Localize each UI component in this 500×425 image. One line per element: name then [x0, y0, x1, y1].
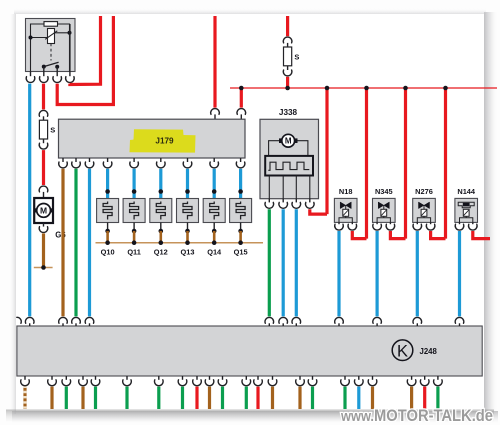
relay coil diagonal	[45, 31, 57, 40]
wire red fuse to G6	[42, 150, 45, 185]
wire blue N144 to J248	[458, 231, 461, 316]
wire red bus drop to J338	[325, 88, 328, 214]
J248 top arc 3	[72, 317, 81, 323]
J338 pin lead 3	[295, 176, 297, 199]
relay pin stub 4	[69, 24, 71, 76]
N276 solenoid coil	[421, 209, 427, 216]
svg-text:J248: J248	[420, 347, 438, 356]
svg-text:Q10: Q10	[101, 248, 115, 257]
Q14 ground node	[212, 240, 217, 245]
fuse S right body	[284, 47, 292, 66]
wire brown Q14 to ground	[213, 231, 216, 243]
valve N345 box	[373, 198, 396, 222]
valve N144 box	[455, 198, 478, 222]
Q13 ground node	[185, 240, 190, 245]
Q10 top node	[105, 189, 110, 194]
Q12 bottom stub	[160, 223, 162, 232]
J248 bottom stub 16	[312, 376, 314, 380]
Q10 bottom stub	[107, 223, 109, 232]
J248 top arc 10	[413, 317, 422, 323]
Q15 bottom node	[238, 229, 243, 234]
relay terminal 3 arc	[53, 77, 62, 83]
J338 pin lead 4	[309, 176, 311, 199]
svg-text:M: M	[40, 206, 47, 216]
G6 stub bottom	[43, 223, 45, 227]
J248 bottom stub 5	[95, 376, 97, 380]
N276 bottom arc right	[426, 224, 435, 230]
J338 pulse box	[265, 156, 313, 176]
fuse S left body	[39, 120, 47, 139]
J179 bottom stub 5	[133, 158, 135, 162]
glow plug ground rail	[96, 242, 264, 244]
J248 bottom arc 20	[407, 380, 416, 386]
bus node fuse S	[285, 86, 290, 91]
Q12 ground node	[159, 240, 164, 245]
wire blue N18 to J248	[337, 231, 340, 316]
Q13 top node	[185, 189, 190, 194]
J248 bottom stub 9	[196, 376, 198, 380]
J338 bottom arc 4	[306, 202, 315, 208]
J179 arc pin a	[211, 109, 220, 115]
wire green J179 to J248	[74, 169, 77, 317]
wire J248 out 14	[271, 387, 274, 409]
J248 top stub 6	[282, 323, 284, 326]
Q15 bottom stub	[240, 223, 242, 232]
relay internal fuse	[44, 22, 58, 27]
J248 bottom arc 3	[62, 380, 71, 386]
wire blue J179 to J248	[88, 169, 91, 317]
J248 bottom stub 4	[82, 376, 84, 380]
wire red relay-4 L-shape up	[70, 16, 101, 85]
relay internal top wire	[31, 24, 70, 72]
svg-text:Q15: Q15	[234, 248, 248, 257]
J248 top stub 10	[416, 323, 418, 326]
J248 bottom stub 21	[424, 376, 426, 380]
J248 bottom arc 4	[79, 380, 88, 386]
Q15 heater element	[236, 202, 245, 220]
J248 bottom arc 15	[296, 380, 305, 386]
svg-text:Q12: Q12	[154, 248, 168, 257]
wire red N18 supply	[352, 231, 366, 239]
J248 bottom stub 15	[299, 376, 301, 380]
wire brown Q10 to ground	[106, 231, 109, 243]
wire red N276 supply	[431, 231, 446, 239]
valve N276 box	[413, 198, 436, 222]
wire brown J179 to J248	[61, 169, 64, 317]
J338 motor tab right	[294, 138, 297, 143]
N18 valve bowtie	[340, 202, 351, 209]
wire red relay-3 L-shape up	[57, 16, 113, 105]
motor G6 side tab left	[35, 208, 39, 212]
N345 bottom arc left	[373, 224, 382, 230]
wire J248 out 20	[410, 387, 413, 409]
relay terminal 1 arc	[26, 77, 35, 83]
svg-text:N276: N276	[415, 187, 433, 196]
J338 bottom arc 1	[265, 202, 274, 208]
glow plug Q13 box	[177, 199, 199, 223]
N144 coil diagonal	[464, 210, 469, 216]
page shadow top	[14, 8, 486, 14]
N18 solenoid coil	[343, 209, 349, 216]
svg-text:J179: J179	[155, 137, 174, 146]
J248 top arc 8	[335, 317, 344, 323]
glow plug Q12 box	[150, 199, 172, 223]
J179 bottom arc 4	[103, 162, 112, 168]
svg-text:Q11: Q11	[127, 248, 141, 257]
J248 top arc 5	[265, 317, 274, 323]
G6 arc bottom	[39, 227, 48, 233]
J248 bottom stub 8	[182, 376, 184, 380]
N345 solenoid coil	[381, 209, 387, 216]
J248 bottom arc 10	[205, 380, 214, 386]
J248 top stub 11	[459, 323, 461, 326]
J179 arc pin b	[237, 109, 246, 115]
J248 bottom arc 13	[254, 380, 263, 386]
Q13 bottom node	[185, 229, 190, 234]
svg-text:Q14: Q14	[207, 248, 222, 257]
fuse S right arc bottom	[283, 70, 292, 76]
J248 top arc 11	[455, 317, 464, 323]
wire J248 out 17	[343, 387, 346, 409]
J248 bottom stub 11	[222, 376, 224, 380]
J338 bottom stub 2	[282, 199, 284, 203]
Q15 ground node	[238, 240, 243, 245]
wire brown Q11 to ground	[133, 231, 136, 243]
fuse S left stub bottom	[43, 139, 45, 143]
J248 bottom stub 2	[51, 376, 53, 380]
N345 bottom stub right	[389, 222, 391, 224]
relay box	[26, 19, 76, 72]
wire red N144 supply	[473, 231, 490, 239]
J248 bottom arc 6	[123, 380, 132, 386]
N144 internal leads	[460, 216, 473, 222]
wire red top feed to J179 pin a	[213, 16, 216, 108]
wire red fuse S right top	[286, 16, 289, 36]
G6 ground node	[41, 265, 46, 270]
wire red bus drop to N276	[444, 88, 447, 239]
Q11 bottom node	[132, 229, 137, 234]
J338 bottom stub 1	[268, 199, 270, 203]
svg-text:MOTOR-TALK.de: MOTOR-TALK.de	[374, 407, 493, 425]
J248 bottom stub 19	[372, 376, 374, 380]
J248 bottom stub 1	[24, 376, 26, 380]
Q10 bottom node	[105, 229, 110, 234]
N144 solenoid coil	[463, 209, 469, 216]
N345 bottom stub left	[376, 222, 378, 224]
J248 top arc 1	[25, 317, 34, 323]
J248 top stub 7	[295, 323, 297, 326]
wire J248 out 11	[221, 387, 224, 409]
J179 bottom stub 7	[187, 158, 189, 162]
J179 bottom arc 6	[157, 162, 166, 168]
J248 top arc 6	[279, 317, 288, 323]
wire blue J179 to Q13	[186, 169, 189, 199]
J248 bottom arc 8	[178, 380, 187, 386]
J179 bottom stub 9	[240, 158, 242, 162]
J179 yellow highlight	[130, 129, 196, 152]
relay pin stub 1	[30, 72, 32, 77]
wire red bus drop to N345	[404, 88, 407, 239]
wire J248 out 7	[157, 387, 160, 409]
wire J248 out 13	[256, 387, 259, 409]
fuse S left arc bottom	[39, 143, 48, 149]
motor G6 box	[34, 198, 53, 223]
N276 bottom stub right	[430, 222, 432, 224]
J179 bottom stub 8	[213, 158, 215, 162]
J338 pulse waveform	[268, 162, 309, 170]
glow plug Q15 box	[230, 199, 252, 223]
N18 bottom stub left	[338, 222, 340, 224]
svg-text:N144: N144	[457, 187, 476, 196]
relay coil K	[48, 29, 55, 44]
J338 motor circle	[282, 134, 295, 147]
J248 K circle	[392, 340, 413, 361]
Q13 bottom stub	[187, 223, 189, 232]
bus node J338 drop	[325, 86, 330, 91]
J248 bottom arc 16	[308, 380, 317, 386]
G6 arc top	[39, 186, 48, 192]
wire red bus drop to N18	[365, 88, 368, 239]
N345 coil diagonal	[381, 210, 386, 216]
J179 bottom arc 3	[85, 162, 94, 168]
J248 top stub 9	[376, 323, 378, 326]
wire brown Q12 to ground	[160, 231, 163, 243]
wire blue J179 to Q12	[159, 169, 162, 199]
bus node N276 drop	[443, 86, 448, 91]
svg-text:S: S	[50, 126, 55, 135]
fuse S right arc top	[283, 37, 292, 43]
relay node left	[29, 36, 33, 40]
glow plug Q11 box	[123, 199, 145, 223]
glow plug Q14 box	[203, 199, 225, 223]
wire red relay-2 to fuse S left	[42, 84, 45, 110]
wire J248 out 8	[181, 387, 184, 409]
wire J248 out 18	[357, 387, 360, 409]
N345 bottom arc right	[386, 224, 395, 230]
J248 top arc 4	[85, 317, 94, 323]
wire red J338 supply	[310, 209, 327, 214]
wire J248 out 9	[195, 387, 198, 409]
G6 ground rail	[34, 267, 53, 269]
J248 bottom arc 19	[368, 380, 377, 386]
J179 stub pin b	[240, 114, 242, 119]
N276 valve bowtie	[419, 202, 430, 209]
wire J248 out 16	[311, 387, 314, 409]
N144 air valve plug	[463, 203, 470, 207]
Q13 heater element	[183, 202, 192, 220]
Q11 heater element	[130, 202, 139, 220]
bus node J179 feed	[239, 86, 244, 91]
svg-text:Q13: Q13	[181, 248, 195, 257]
svg-text:G6: G6	[55, 231, 66, 240]
control unit J179 box	[59, 119, 246, 158]
J248 bottom stub 18	[358, 376, 360, 380]
J248 top arc 7	[292, 317, 301, 323]
page shadow right	[484, 12, 498, 417]
N276 coil diagonal	[421, 210, 426, 216]
svg-text:N18: N18	[339, 187, 353, 196]
relay terminal 2 arc	[40, 77, 49, 83]
J248 bottom arc 2	[48, 380, 57, 386]
J248 bottom arc 22	[434, 380, 443, 386]
relay switch contact right	[55, 65, 59, 69]
N18 bottom arc right	[348, 224, 357, 230]
relay switch blade	[44, 62, 59, 66]
J179 bottom stub 3	[89, 158, 91, 162]
N18 coil diagonal	[343, 210, 348, 216]
J179 bottom arc 5	[130, 162, 139, 168]
N276 bottom arc left	[413, 224, 422, 230]
J338 bottom arc 3	[292, 202, 301, 208]
J248 bottom stub 17	[344, 376, 346, 380]
J248 bottom arc 7	[155, 380, 164, 386]
wire blue J179 to Q15	[239, 169, 242, 199]
wire J248 out 5	[94, 387, 97, 409]
J248 bottom stub 14	[272, 376, 274, 380]
J248 top stub 8	[338, 323, 340, 326]
wire stripe overlay 1	[23, 387, 26, 409]
Q11 ground node	[132, 240, 137, 245]
motor G6 circle	[37, 204, 51, 218]
Q10 heater element	[103, 202, 112, 220]
wire J248 out 6	[125, 387, 128, 409]
J248 bottom arc 1	[21, 380, 30, 386]
J179 bottom stub 2	[75, 158, 77, 162]
N345 internal leads	[377, 216, 390, 222]
wire blue J179 to Q10	[106, 169, 109, 199]
J248 bottom arc 12	[242, 380, 251, 386]
N276 internal leads	[417, 216, 430, 222]
fuse S right stub bottom	[287, 66, 289, 70]
wire brown Q13 to ground	[186, 231, 189, 243]
Q12 bottom node	[159, 229, 164, 234]
J179 bottom stub 4	[107, 158, 109, 162]
svg-text:S: S	[294, 52, 299, 61]
N345 valve stem	[383, 205, 385, 209]
svg-text:www.: www.	[340, 409, 374, 425]
J248 bottom stub 7	[158, 376, 160, 380]
wire green J338 to J248	[268, 209, 271, 316]
N276 bottom stub left	[416, 222, 418, 224]
N144 bottom arc right	[468, 224, 477, 230]
Q14 top node	[212, 189, 217, 194]
relay pin stub 2	[43, 67, 45, 77]
J338 motor lead left	[269, 141, 281, 156]
J248 top stub 3	[75, 323, 77, 326]
relay actuator dashed link	[50, 44, 52, 61]
relay node right	[68, 31, 72, 35]
J248 bottom arc 11	[218, 380, 227, 386]
N18 bottom arc left	[335, 224, 344, 230]
wire brown Q15 to ground	[239, 231, 242, 243]
watermark band	[6, 410, 494, 422]
J338 bottom stub 4	[309, 199, 311, 203]
J338 pin lead 1	[268, 176, 270, 199]
red bus line	[230, 87, 497, 89]
J338 bottom arc 2	[279, 202, 288, 208]
J248 bottom stub 12	[245, 376, 247, 380]
J248 bottom arc 17	[341, 380, 350, 386]
wire J248 out 3	[65, 387, 68, 409]
Q10 ground node	[105, 240, 110, 245]
wire blue relay-1 to J248	[28, 84, 31, 317]
wire J248 out 15	[298, 387, 301, 409]
wire J248 out 12	[245, 387, 248, 409]
J338 pin lead 2	[282, 176, 284, 199]
N144 bottom stub left	[459, 222, 461, 224]
Q14 bottom stub	[213, 223, 215, 232]
wire red bus to J179 pin b	[240, 88, 243, 108]
svg-text:K: K	[397, 342, 408, 360]
J248 top stub 5	[268, 323, 270, 326]
J248 bottom arc 5	[91, 380, 100, 386]
fuse S left arc top	[39, 110, 48, 116]
G6 stub top	[43, 192, 45, 198]
relay terminal 4 arc	[66, 77, 75, 83]
control unit J248 band	[17, 326, 482, 376]
Q12 heater element	[156, 202, 165, 220]
J179 bottom arc 9	[236, 162, 245, 168]
page shadow left	[9, 14, 16, 414]
J248 top arc 2	[59, 317, 68, 323]
J179 bottom arc 7	[183, 162, 192, 168]
Q11 top node	[132, 189, 137, 194]
J179 bottom arc 2	[72, 162, 81, 168]
N144 air valve outline	[458, 202, 474, 208]
J248 bottom arc 14	[268, 380, 277, 386]
Q14 heater element	[210, 202, 219, 220]
fuse S left stub top	[43, 116, 45, 120]
J179 bottom arc 8	[210, 162, 219, 168]
J338 motor lead right	[296, 141, 308, 156]
N18 valve stem	[345, 205, 347, 209]
page shadow bottom	[12, 411, 498, 424]
J179 stub pin a	[214, 114, 216, 119]
Q14 bottom node	[212, 229, 217, 234]
J248 bottom arc 9	[193, 380, 202, 386]
J248 top stub 4	[89, 323, 91, 326]
bus node N345 drop	[403, 86, 408, 91]
N144 bottom stub right	[472, 222, 474, 224]
wire brown G6 to ground	[42, 233, 45, 267]
J248 top stub 1	[29, 323, 31, 326]
J179 bottom stub 1	[62, 158, 64, 162]
wire blue J338-2 to J248	[282, 209, 285, 316]
wire red N345 supply	[390, 231, 405, 239]
J248 bottom stub 20	[411, 376, 413, 380]
relay pin stub 3	[56, 67, 58, 76]
relay coil branch right	[55, 32, 70, 34]
J248 bottom stub 3	[65, 376, 67, 380]
J179 bottom stub 6	[160, 158, 162, 162]
glow plug Q10 box	[97, 199, 119, 223]
wire brown-white striped J248 out 1	[23, 387, 26, 409]
wire blue N345 to J248	[376, 231, 379, 316]
wire blue N276 to J248	[416, 231, 419, 316]
wire blue J338-3 to J248	[295, 209, 298, 316]
Q12 top node	[159, 189, 164, 194]
relay switch contact left	[42, 65, 46, 69]
Q11 bottom stub	[133, 223, 135, 232]
J248 bottom stub 13	[257, 376, 259, 380]
J248 bottom arc 18	[355, 380, 364, 386]
J248 bottom stub 6	[126, 376, 128, 380]
J248 bottom arc 21	[420, 380, 429, 386]
wire J248 out 22	[436, 387, 439, 409]
bus node N18 drop	[364, 86, 369, 91]
N18 internal leads	[339, 216, 352, 222]
svg-text:M: M	[285, 137, 292, 146]
